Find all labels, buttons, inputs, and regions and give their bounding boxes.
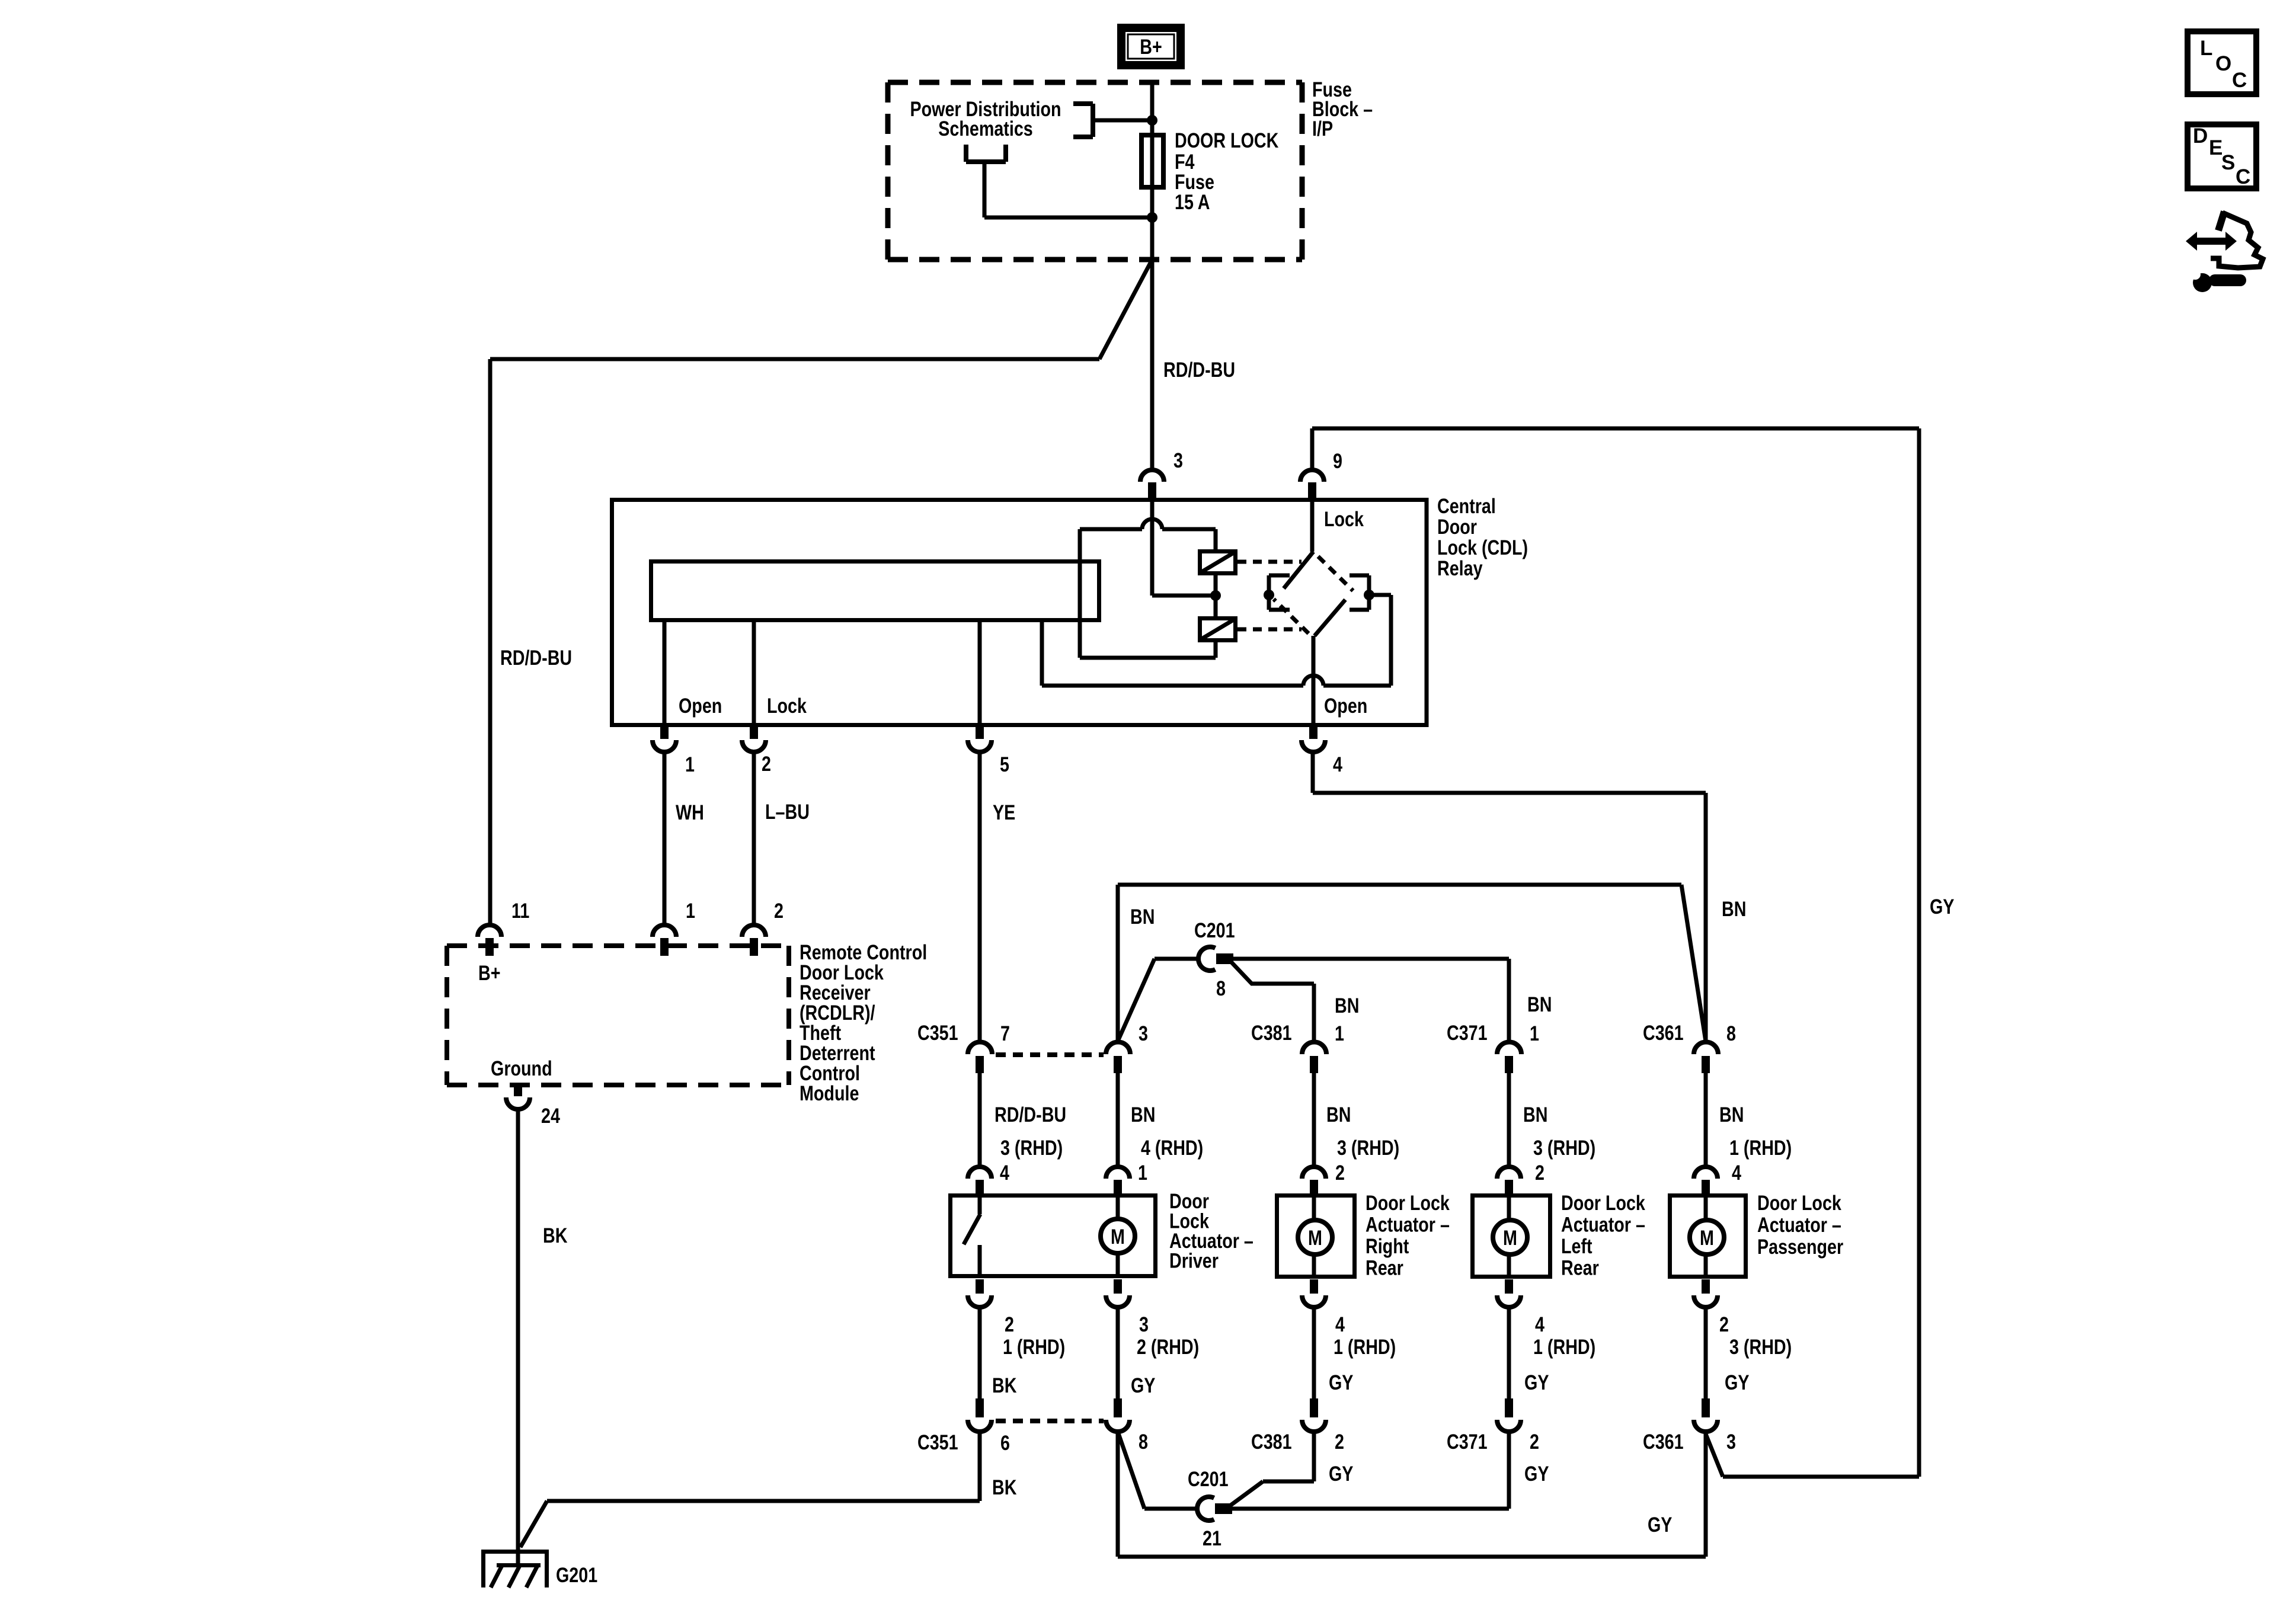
- svg-text:BN: BN: [1131, 1103, 1155, 1126]
- power distribution schematics label: [910, 97, 1061, 140]
- svg-text:Driver: Driver: [1169, 1249, 1219, 1272]
- svg-text:GY: GY: [1930, 895, 1954, 918]
- wire col1 actuator to C351-6: [978, 1307, 982, 1398]
- svg-text:1: 1: [1530, 1022, 1539, 1045]
- svg-text:C201: C201: [1194, 918, 1235, 942]
- svg-text:C: C: [2236, 165, 2250, 188]
- central door lock CDL relay box: [612, 500, 1427, 725]
- remote control door lock receiver dashed box: [447, 946, 789, 1085]
- svg-text:M: M: [1308, 1226, 1322, 1249]
- svg-text:GY: GY: [1329, 1371, 1353, 1394]
- wire col5 actuator to C361-3: [1704, 1307, 1708, 1398]
- connector C351 pin 7: [968, 1042, 992, 1074]
- wire C201-21 to col4: [1231, 1432, 1509, 1509]
- svg-text:8: 8: [1216, 977, 1226, 1000]
- right rear motor M: [1298, 1195, 1332, 1277]
- wire lock input to switch top: [1310, 500, 1315, 552]
- svg-text:E: E: [2209, 136, 2223, 159]
- fuse F4 DOOR LOCK 15A: [1141, 135, 1163, 187]
- svg-text:3 (RHD): 3 (RHD): [1337, 1136, 1399, 1159]
- svg-text:WH: WH: [676, 801, 704, 824]
- relay coil 1 lock: [1200, 552, 1236, 574]
- svg-text:C371: C371: [1447, 1430, 1488, 1453]
- driver actuator pin 3 bottom connector: [1106, 1279, 1130, 1307]
- svg-text:C: C: [2232, 69, 2247, 92]
- driver actuator pin 1 connector: [1106, 1167, 1130, 1195]
- svg-text:G201: G201: [556, 1563, 597, 1586]
- driver actuator label: [1169, 1189, 1253, 1272]
- svg-text:2: 2: [774, 899, 784, 922]
- left rear motor M: [1493, 1195, 1527, 1277]
- svg-text:BN: BN: [1719, 1103, 1744, 1126]
- svg-text:I/P: I/P: [1312, 117, 1333, 140]
- wire col2 to driver actuator motor: [1116, 1073, 1120, 1167]
- svg-text:YE: YE: [993, 801, 1015, 824]
- passenger actuator pin 4 top connector: [1694, 1167, 1718, 1195]
- col4 lower labels: [1524, 1313, 1595, 1394]
- wire pin 9 riser: [1310, 428, 1315, 470]
- wire C201 branch to col3: [1230, 961, 1314, 1041]
- wire col2 diagonal to C201-21: [1118, 1432, 1197, 1509]
- svg-text:9: 9: [1333, 449, 1342, 472]
- svg-text:1 (RHD): 1 (RHD): [1334, 1335, 1396, 1358]
- DESC icon box: [2188, 124, 2256, 188]
- svg-text:11: 11: [511, 899, 529, 922]
- svg-text:Lock: Lock: [767, 694, 807, 717]
- wire switch common return with hop: [1042, 595, 1391, 686]
- battery feed terminal B+: [1121, 28, 1181, 65]
- wire pin4 BN to C361-8: [1313, 752, 1706, 1041]
- right rear actuator box: [1277, 1196, 1355, 1277]
- svg-text:C381: C381: [1251, 1430, 1292, 1453]
- svg-text:3: 3: [1139, 1022, 1148, 1045]
- svg-text:BN: BN: [1722, 897, 1746, 920]
- svg-text:BN: BN: [1527, 993, 1552, 1016]
- wire pin5 YE: [978, 752, 982, 1041]
- svg-text:1 (RHD): 1 (RHD): [1729, 1136, 1792, 1159]
- connector C351 pin 8: [1106, 1398, 1130, 1432]
- dashed connector jumper row2: [996, 1419, 1104, 1423]
- wire relay pin 1 internal: [663, 622, 667, 724]
- fuse label: [1175, 129, 1278, 213]
- wire col5 GY to bottom rail: [1704, 1432, 1708, 1557]
- svg-text:M: M: [1700, 1226, 1714, 1249]
- fuse block label: [1312, 78, 1373, 140]
- svg-text:2: 2: [1535, 1161, 1544, 1184]
- svg-text:DOOR LOCK: DOOR LOCK: [1175, 129, 1278, 152]
- connector C381 pin 1: [1302, 1042, 1326, 1074]
- svg-text:BN: BN: [1335, 994, 1359, 1017]
- svg-text:Module: Module: [800, 1081, 859, 1105]
- svg-text:Door Lock: Door Lock: [1757, 1191, 1841, 1214]
- svg-text:Lock (CDL): Lock (CDL): [1437, 536, 1528, 559]
- svg-text:BN: BN: [1326, 1103, 1351, 1126]
- passenger pin 2 bottom connector: [1694, 1279, 1718, 1307]
- RCDLR label: [800, 940, 927, 1105]
- svg-text:GY: GY: [1524, 1462, 1549, 1485]
- svg-text:Actuator –: Actuator –: [1561, 1213, 1645, 1236]
- relay coil frame with wire hop: [1080, 519, 1216, 658]
- svg-text:Relay: Relay: [1437, 556, 1483, 580]
- wire col2 actuator to C351-8: [1116, 1307, 1120, 1398]
- svg-text:4: 4: [1000, 1161, 1009, 1184]
- svg-text:Actuator –: Actuator –: [1366, 1213, 1450, 1236]
- svg-text:C381: C381: [1251, 1021, 1292, 1044]
- dashed link coil 2 to switch: [1237, 628, 1302, 632]
- svg-text:M: M: [1111, 1225, 1125, 1248]
- wire pin 3 into coils: [1152, 500, 1211, 596]
- svg-text:BN: BN: [1130, 905, 1155, 928]
- wire pin9 GY loop right side: [1312, 428, 1919, 1477]
- svg-text:S: S: [2221, 151, 2235, 174]
- svg-text:2: 2: [762, 752, 771, 775]
- svg-text:Door: Door: [1437, 515, 1477, 538]
- svg-text:GY: GY: [1131, 1374, 1155, 1397]
- wire C201 to col4: [1232, 959, 1509, 1041]
- relay switch solid contact arms: [1284, 552, 1345, 636]
- connector C201 pin 21 inline: [1197, 1497, 1232, 1521]
- passenger actuator label: [1757, 1191, 1843, 1258]
- relay pin 3 connector: [1140, 470, 1164, 498]
- svg-text:GY: GY: [1524, 1371, 1549, 1394]
- svg-text:2: 2: [1719, 1313, 1729, 1336]
- svg-text:8: 8: [1726, 1022, 1736, 1045]
- ground symbol G201: [481, 1547, 549, 1587]
- relay internal logic board rectangle: [651, 562, 1099, 620]
- svg-text:Door Lock: Door Lock: [1561, 1191, 1645, 1214]
- relay switch left bracket terminal: [1264, 575, 1290, 610]
- svg-text:1: 1: [685, 753, 695, 776]
- wire col5 to passenger actuator: [1704, 1073, 1708, 1167]
- svg-text:Open: Open: [679, 694, 722, 717]
- connector C361 pin 8: [1694, 1042, 1718, 1074]
- svg-text:L: L: [2200, 37, 2212, 60]
- svg-text:Passenger: Passenger: [1757, 1235, 1843, 1258]
- right rear actuator label: [1366, 1191, 1450, 1279]
- passenger motor M: [1690, 1195, 1724, 1277]
- svg-text:4: 4: [1335, 1313, 1345, 1336]
- svg-text:3: 3: [1726, 1430, 1736, 1453]
- dashed connector jumper row1: [996, 1052, 1104, 1057]
- wire bottom GY rail: [1118, 1555, 1706, 1559]
- svg-text:GY: GY: [1329, 1462, 1353, 1485]
- wire horizontal to left side: [490, 357, 1099, 361]
- junction node above fuse: [1147, 115, 1157, 126]
- svg-text:3 (RHD): 3 (RHD): [1533, 1136, 1595, 1159]
- svg-text:GY: GY: [1648, 1513, 1672, 1536]
- wire col1 to driver actuator: [978, 1073, 982, 1167]
- wire left vertical RD/D-BU to RCDLR pin 11: [488, 359, 493, 925]
- right rear pin 4 bottom connector: [1302, 1279, 1326, 1307]
- fuse block I/P dashed box: [888, 82, 1302, 260]
- wire pin 24 BK ground wire: [516, 1109, 520, 1548]
- svg-text:BK: BK: [543, 1224, 567, 1247]
- wire diagonal col2 to C201: [1118, 959, 1198, 1041]
- svg-text:4 (RHD): 4 (RHD): [1141, 1136, 1203, 1159]
- svg-text:BK: BK: [992, 1475, 1016, 1499]
- svg-text:5: 5: [1000, 753, 1009, 776]
- connector C371 pin 1: [1497, 1042, 1521, 1074]
- svg-text:Right: Right: [1366, 1234, 1409, 1257]
- LOC icon box: [2188, 31, 2256, 94]
- svg-text:1: 1: [1335, 1022, 1344, 1045]
- svg-text:Ground: Ground: [491, 1057, 552, 1080]
- driver actuator pin 4 connector: [968, 1167, 992, 1195]
- wire pin2 L-BU: [752, 752, 756, 925]
- connector C381 pin 2: [1302, 1398, 1326, 1432]
- svg-text:C351: C351: [917, 1430, 958, 1454]
- RCDLR pin 11 connector: [478, 925, 501, 956]
- door lock actuator driver box: [951, 1196, 1156, 1276]
- svg-text:RD/D-BU: RD/D-BU: [1163, 358, 1235, 381]
- passenger actuator box: [1670, 1196, 1746, 1277]
- svg-text:8: 8: [1139, 1430, 1148, 1453]
- col5 lower labels: [1719, 1313, 1792, 1394]
- svg-text:C371: C371: [1447, 1021, 1488, 1044]
- wire relay pin 5 internal: [978, 622, 982, 724]
- relay pin 2 bottom connector: [742, 725, 766, 752]
- svg-text:3: 3: [1173, 449, 1183, 472]
- power distribution bracket right: [1073, 104, 1152, 137]
- left rear actuator label: [1561, 1191, 1645, 1279]
- RCDLR pin 1 connector: [653, 925, 676, 956]
- svg-text:2: 2: [1335, 1430, 1344, 1453]
- svg-text:RD/D-BU: RD/D-BU: [994, 1103, 1066, 1126]
- svg-text:21: 21: [1203, 1526, 1221, 1550]
- relay switch right bracket terminal: [1350, 575, 1374, 610]
- wire relay pin 2 internal: [752, 622, 756, 724]
- col5 wire labels: [1719, 1103, 1792, 1184]
- col4 wire labels: [1523, 1103, 1595, 1184]
- junction node below fuse: [1147, 212, 1157, 223]
- connector C351 pin 3: [1106, 1042, 1130, 1074]
- wire pin1 WH: [663, 752, 667, 925]
- relay switch diamond dashed edges: [1274, 556, 1353, 633]
- dashed link coil 1 to switch: [1237, 560, 1302, 564]
- RCDLR pin 2 connector: [742, 925, 766, 956]
- svg-text:C361: C361: [1643, 1021, 1684, 1044]
- svg-text:Schematics: Schematics: [938, 117, 1033, 140]
- driver door lock switch: [964, 1195, 980, 1276]
- svg-text:4: 4: [1535, 1313, 1544, 1336]
- svg-text:15 A: 15 A: [1175, 190, 1210, 213]
- svg-text:Lock: Lock: [1324, 507, 1364, 530]
- svg-text:D: D: [2193, 124, 2208, 148]
- wire switch bottom to pin 4: [1312, 636, 1316, 724]
- svg-text:Door Lock: Door Lock: [1366, 1191, 1450, 1214]
- col1 lower labels: [992, 1313, 1065, 1397]
- svg-text:2: 2: [1530, 1430, 1539, 1453]
- connector C361 pin 3: [1694, 1398, 1718, 1432]
- svg-text:BK: BK: [992, 1374, 1016, 1397]
- RCDLR pin 24 connector: [506, 1086, 530, 1109]
- svg-text:C351: C351: [917, 1021, 958, 1044]
- wire col1 BK to ground: [520, 1432, 980, 1547]
- wire col3 actuator to C381-2: [1312, 1307, 1316, 1398]
- relay pin 5 bottom connector: [968, 725, 992, 752]
- svg-text:3 (RHD): 3 (RHD): [1000, 1136, 1063, 1159]
- col2 lower labels: [1131, 1313, 1199, 1397]
- relay pin 9 connector: [1300, 470, 1324, 498]
- svg-text:1 (RHD): 1 (RHD): [1533, 1335, 1595, 1358]
- wire B+ feed down through fuse block: [1150, 82, 1155, 470]
- svg-text:1: 1: [686, 899, 695, 922]
- svg-text:6: 6: [1000, 1431, 1010, 1454]
- svg-text:Rear: Rear: [1366, 1256, 1403, 1279]
- col2 wire labels: [1131, 1103, 1203, 1184]
- adjust-car-wrench icon: [2186, 212, 2263, 292]
- wire branch diagonal to RCDLR feed: [1099, 260, 1152, 359]
- svg-text:2 (RHD): 2 (RHD): [1137, 1335, 1199, 1358]
- left rear actuator box: [1473, 1196, 1550, 1277]
- driver actuator pin 2 bottom connector: [968, 1279, 992, 1307]
- svg-text:1 (RHD): 1 (RHD): [1003, 1335, 1065, 1358]
- svg-text:M: M: [1503, 1226, 1517, 1249]
- driver actuator motor M: [1101, 1195, 1135, 1276]
- right rear actuator pin 2 top connector: [1302, 1167, 1326, 1195]
- left rear actuator pin 2 top connector: [1497, 1167, 1521, 1195]
- svg-text:O: O: [2215, 52, 2231, 75]
- svg-text:C201: C201: [1188, 1467, 1229, 1490]
- relay pin 1 bottom connector: [653, 725, 676, 752]
- left rear pin 4 bottom connector: [1497, 1279, 1521, 1307]
- svg-text:Central: Central: [1437, 494, 1496, 517]
- connector C201 pin 8 inline: [1198, 947, 1233, 971]
- connector C371 pin 2: [1497, 1398, 1521, 1432]
- wire col3 to right rear actuator: [1312, 1073, 1316, 1167]
- svg-text:L–BU: L–BU: [765, 800, 810, 823]
- svg-text:4: 4: [1333, 753, 1342, 776]
- svg-text:Rear: Rear: [1561, 1256, 1599, 1279]
- power distribution bracket below: [966, 145, 1152, 217]
- svg-text:GY: GY: [1725, 1371, 1749, 1394]
- wire col2 GY to bottom rail: [1116, 1432, 1120, 1557]
- svg-text:Left: Left: [1561, 1234, 1593, 1257]
- wire col4 actuator to C371-2: [1507, 1307, 1511, 1398]
- svg-text:B+: B+: [1140, 35, 1162, 58]
- svg-text:3: 3: [1139, 1313, 1149, 1336]
- relay pin 4 bottom connector: [1302, 725, 1325, 752]
- svg-text:24: 24: [541, 1104, 560, 1127]
- svg-text:BN: BN: [1523, 1103, 1547, 1126]
- svg-text:C361: C361: [1643, 1430, 1684, 1453]
- svg-text:B+: B+: [478, 961, 500, 984]
- svg-text:3 (RHD): 3 (RHD): [1729, 1335, 1792, 1358]
- svg-text:Actuator –: Actuator –: [1757, 1213, 1841, 1236]
- junction node between coils: [1210, 590, 1221, 601]
- CDL relay label: [1437, 494, 1528, 580]
- col3 lower labels: [1329, 1313, 1396, 1394]
- svg-text:Open: Open: [1324, 694, 1367, 717]
- svg-text:RD/D-BU: RD/D-BU: [500, 646, 572, 669]
- connector C351 pin 6: [968, 1398, 992, 1432]
- col1 wire labels: [994, 1103, 1066, 1184]
- svg-text:7: 7: [1000, 1022, 1010, 1045]
- svg-text:1: 1: [1138, 1161, 1147, 1184]
- svg-text:2: 2: [1005, 1313, 1014, 1336]
- relay coil 2 open: [1200, 619, 1236, 641]
- wire col4 to left rear actuator: [1507, 1073, 1511, 1167]
- col3 wire labels: [1326, 1103, 1399, 1184]
- svg-text:4: 4: [1732, 1161, 1741, 1184]
- svg-text:2: 2: [1335, 1161, 1345, 1184]
- wire C201-21 branch to col3: [1229, 1432, 1314, 1506]
- wire BN bus top from col2 to C361-8: [1118, 885, 1706, 1041]
